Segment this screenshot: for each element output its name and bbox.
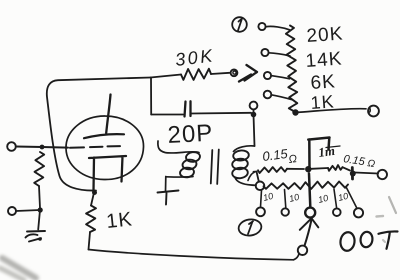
resistor R5 0.15 ohm (right) bbox=[328, 165, 343, 171]
switch contact 4 bbox=[264, 91, 272, 99]
resistor R2 30K (horizontal) bbox=[181, 69, 211, 80]
photo smudge right-mid bbox=[389, 197, 396, 213]
svg-text:20P: 20P bbox=[167, 120, 214, 149]
label OUT letter O1 bbox=[339, 231, 355, 251]
switch contact 1 bbox=[258, 23, 265, 30]
tube V1 envelope bbox=[66, 116, 144, 180]
wire right node to terminal bbox=[355, 173, 378, 174]
resistor R4 0.15 ohm (left) bbox=[258, 167, 287, 173]
switch contact 3 bbox=[264, 72, 271, 79]
wire R2 to wiper bbox=[211, 73, 230, 74]
circled 1 (bottom) bbox=[238, 218, 263, 237]
primary termination bar bbox=[158, 191, 179, 205]
wire contact4 to divider bbox=[271, 95, 291, 100]
svg-text:1m: 1m bbox=[317, 143, 336, 160]
node bus-coil junction bbox=[251, 112, 257, 118]
tap wire 4 bbox=[334, 189, 337, 208]
wire drop to coupling cap bbox=[150, 78, 152, 115]
capacitor C1 plates bbox=[185, 101, 191, 116]
tube V1 grid (dashed) and grid wire bbox=[42, 146, 120, 148]
left-end ring of R6 bbox=[256, 182, 265, 191]
wire cap to contact5 node bbox=[191, 112, 251, 115]
node attenuator center bbox=[305, 166, 311, 172]
wire center node to R5 bbox=[312, 167, 329, 170]
tap wire 5 bbox=[347, 188, 357, 208]
wire to cap left plate bbox=[151, 114, 183, 116]
wire R4 to center node bbox=[287, 168, 304, 170]
tube V1 cathode bbox=[89, 156, 126, 191]
circled 1 (top) bbox=[232, 17, 247, 32]
output arrow head bbox=[300, 218, 319, 230]
wire J2 to node bbox=[16, 210, 40, 211]
node grid junction bbox=[40, 145, 45, 150]
tap wire 2 bbox=[285, 190, 286, 208]
terminal output top-right bbox=[368, 106, 379, 117]
switch SW1 wiper ring bbox=[231, 69, 238, 76]
wire hook to arrow base bbox=[294, 254, 300, 260]
wire coil exit to bus bbox=[248, 172, 257, 181]
input terminal J1 (hot) bbox=[7, 142, 16, 151]
ground symbol bbox=[26, 231, 46, 242]
wire R1 to lower node bbox=[39, 186, 40, 208]
resistor R1 grid leak (vertical) bbox=[34, 152, 44, 186]
svg-text:0.15: 0.15 bbox=[262, 146, 290, 164]
tap terminal 5 bbox=[354, 208, 363, 217]
arrow base ring bbox=[298, 246, 307, 255]
wire node down to secondary coil bbox=[254, 115, 255, 147]
tube V1 plate lead bbox=[106, 95, 110, 134]
node cathode junction bbox=[92, 190, 97, 195]
switch contact 2 bbox=[261, 49, 268, 56]
node divider bottom bbox=[292, 109, 298, 115]
input terminal J2 (gnd) bbox=[8, 207, 16, 215]
wire rail to R2 bbox=[151, 75, 182, 78]
tap terminal 3 (center, bold) bbox=[305, 208, 315, 218]
wire cathode to top rail (rounded corner) bbox=[47, 78, 151, 191]
wire R7 to bottom rail bbox=[89, 232, 91, 250]
switch SW1 wiper arrow bbox=[239, 65, 257, 82]
svg-text:20K: 20K bbox=[306, 23, 344, 47]
tap terminal 4 bbox=[333, 208, 341, 216]
switch contact 5 bbox=[250, 102, 258, 110]
photo smudge bottom-left bbox=[0, 258, 36, 280]
tap wire 1 bbox=[261, 190, 262, 207]
wire J1 to grid node bbox=[16, 146, 42, 149]
node attenuator right bbox=[350, 171, 356, 177]
wire divider bottom to terminal bbox=[296, 109, 367, 113]
transformer T1 secondary coil bbox=[234, 146, 255, 152]
center tap wire (bold) bbox=[309, 174, 310, 207]
transformer T1 core bbox=[211, 150, 219, 185]
resistor chain R3 20K/14K/6K/1K bbox=[286, 26, 297, 112]
photo smudge bottom-right bbox=[383, 240, 385, 242]
output arrow shaft bbox=[305, 221, 312, 246]
svg-text:Ω: Ω bbox=[288, 153, 298, 166]
tap terminal 2 bbox=[282, 208, 289, 215]
shunt 1m bracket bbox=[308, 138, 329, 169]
node input ground junction bbox=[38, 207, 43, 212]
label OUT letter O2 bbox=[360, 231, 374, 248]
wire primary to termination bbox=[165, 177, 167, 192]
wire node to ground bbox=[38, 210, 40, 230]
resistor R6 tapped ladder bbox=[264, 182, 349, 190]
wire contact5 stem bbox=[253, 109, 255, 113]
wire R5 to right node bbox=[343, 167, 351, 170]
wire contact2 to divider bbox=[269, 53, 290, 56]
svg-text:1K: 1K bbox=[105, 208, 134, 233]
tube V1 plate bbox=[84, 134, 124, 138]
svg-text:14K: 14K bbox=[305, 48, 343, 72]
resistor R7 1K cathode bbox=[86, 206, 96, 233]
terminal output bottom-right bbox=[378, 170, 387, 179]
label OUT letter T bbox=[379, 231, 398, 248]
node bus start above left-end bbox=[254, 172, 259, 182]
bottom rail wire bbox=[89, 250, 294, 260]
tap terminal 1 bbox=[256, 207, 265, 216]
transformer T1 primary coil bbox=[158, 141, 199, 153]
wire contact1 to divider bbox=[266, 26, 290, 29]
wire contact3 to divider bbox=[271, 76, 290, 79]
wire cathode to R7 bbox=[91, 193, 94, 206]
